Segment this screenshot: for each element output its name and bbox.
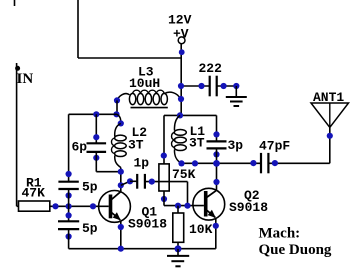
svg-text:IN: IN (17, 71, 34, 87)
svg-text:S9018: S9018 (128, 217, 167, 232)
svg-text:S9018: S9018 (229, 200, 268, 215)
svg-text:3T: 3T (128, 138, 144, 153)
svg-text:47K: 47K (22, 185, 46, 200)
svg-text:5p: 5p (82, 221, 98, 236)
svg-text:75K: 75K (172, 167, 196, 182)
svg-text:10K: 10K (189, 222, 213, 237)
svg-text:222: 222 (199, 61, 223, 76)
svg-text:47pF: 47pF (259, 139, 290, 154)
svg-text:Mach:: Mach: (259, 226, 301, 242)
svg-text:3p: 3p (228, 138, 244, 153)
svg-text:10uH: 10uH (129, 76, 160, 91)
svg-text:5p: 5p (82, 180, 98, 195)
svg-text:3T: 3T (189, 136, 205, 151)
svg-text:Que Duong: Que Duong (259, 242, 332, 258)
svg-text:1p: 1p (134, 156, 150, 171)
svg-text:12V: 12V (168, 13, 192, 28)
svg-text:6p: 6p (72, 140, 88, 155)
